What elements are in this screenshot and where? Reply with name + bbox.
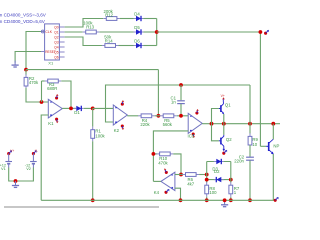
wire to op-amp K2 inverting input	[93, 107, 114, 109]
node D1 output	[91, 107, 95, 111]
wire Q2 base	[212, 124, 219, 141]
wire Q1 emitter to rail	[223, 114, 225, 124]
label R9 value 10	[252, 142, 257, 147]
label R6 value 4k7	[187, 181, 195, 186]
label R5 name	[164, 118, 170, 123]
svg-text:220k: 220k	[140, 122, 150, 127]
op-amp K4 V+ arrow	[164, 168, 168, 174]
transistor Q1	[219, 102, 224, 115]
node top net end	[259, 30, 263, 34]
svg-text:470k: 470k	[158, 160, 168, 165]
svg-text:Q1: Q1	[225, 102, 231, 107]
wire mid rail	[212, 123, 281, 125]
resistor R9	[248, 133, 252, 148]
label R10 value 470k	[158, 160, 168, 165]
node R1 bottom rail	[91, 198, 95, 202]
resistor R13	[83, 30, 100, 34]
ground at RESET	[12, 61, 19, 67]
svg-text:Q6: Q6	[54, 55, 59, 59]
resistor R1	[91, 127, 95, 142]
wire R13 to D5	[99, 31, 133, 33]
label D4	[134, 12, 140, 17]
svg-text:D6: D6	[134, 39, 140, 44]
wire Q1 base	[212, 109, 219, 124]
wire D1 to node	[84, 107, 93, 109]
label D1	[74, 110, 80, 115]
resistor R12	[103, 17, 120, 21]
wire K2 output to R4	[127, 115, 138, 117]
diode D3	[214, 159, 224, 164]
op-amp K1 V- arrow	[55, 118, 58, 124]
label R1 name	[95, 128, 101, 133]
node R6 K4 junction	[179, 173, 183, 177]
diode D5	[134, 29, 144, 34]
svg-text:K4: K4	[154, 190, 160, 195]
IC X1 output pin stubs Q0-Q6	[59, 27, 64, 57]
label R8 value 100	[209, 190, 217, 195]
node net stub marker	[264, 30, 269, 35]
svg-text:D4: D4	[134, 12, 140, 17]
wire Q2 to R14 branch	[65, 37, 102, 46]
label K4	[154, 190, 160, 195]
op-amp K2	[113, 105, 127, 125]
label R3 name	[49, 82, 55, 87]
wire R8 to rail	[206, 197, 208, 201]
svg-text:470k: 470k	[29, 80, 39, 85]
label R2 name	[29, 76, 35, 81]
supply V- at battery V2	[32, 149, 38, 155]
wire R12 to D4	[120, 18, 134, 20]
wire Q1 to R13 branch	[65, 31, 83, 33]
wire D2 row	[207, 179, 231, 181]
IC X1 pin RESET	[41, 50, 56, 54]
label R8 name	[209, 186, 215, 191]
label C2 value 220n	[234, 158, 244, 163]
svg-text:Q3: Q3	[54, 40, 59, 44]
wire D5 to join node	[144, 31, 157, 33]
svg-text:Q1: Q1	[54, 30, 59, 34]
label R9 name	[252, 137, 258, 142]
node rail R9 top	[248, 122, 252, 126]
node C1 bottom IC3 input	[179, 114, 183, 118]
wire CLK net vertical to R4-R5 node	[157, 70, 159, 116]
label R7 name	[234, 186, 240, 191]
label K1	[48, 121, 54, 126]
wire top net to right edge	[157, 31, 261, 33]
node rail Q1 emitter Q2 collector	[222, 122, 226, 126]
node ground bottom rail	[223, 198, 227, 202]
wire Q2 collector from rail	[223, 124, 225, 135]
capacitor C1	[177, 101, 185, 104]
wire IC3 noninverting input from feedback	[153, 131, 188, 182]
svg-text:X1: X1	[48, 60, 54, 65]
op-amp K1 V+ arrow	[55, 94, 58, 100]
wire K1 noninverting to bottom rail	[41, 115, 48, 200]
svg-text:1n: 1n	[171, 100, 176, 105]
label R2 value 470k	[29, 80, 39, 85]
node K1 output	[69, 107, 73, 111]
wire Q3 emitter to bottom rail	[272, 154, 274, 200]
wire K4 inverting input	[175, 174, 183, 176]
node feedback R10 left	[152, 152, 158, 156]
svg-text:4k7: 4k7	[187, 181, 195, 186]
wire RESET to ground	[15, 52, 41, 63]
resistor R5	[160, 114, 177, 118]
label Q1	[225, 102, 231, 107]
label R4 name	[142, 118, 148, 123]
node R4 R5 CLK junction	[157, 114, 161, 118]
node C1 top	[179, 83, 183, 87]
text net-class note line 1	[0, 12, 47, 17]
op-amp K4	[161, 172, 175, 190]
power V+ at Q1 collector	[221, 94, 225, 102]
svg-text:D1: D1	[74, 110, 80, 115]
label R5 value 560k	[163, 122, 173, 127]
label C2 name	[239, 154, 245, 159]
wire feedback up	[41, 81, 43, 102]
node Q2 emitter open end	[222, 150, 227, 155]
IC X1 counter CD4017 box	[45, 24, 60, 60]
resistor R2	[24, 74, 28, 89]
wire R2 top lead	[25, 70, 27, 75]
svg-text:100: 100	[209, 190, 217, 195]
svg-text:R13: R13	[86, 25, 94, 30]
svg-text:CLK: CLK	[45, 30, 52, 34]
IC X1 pin CLK	[41, 30, 53, 34]
node R6 diode network	[205, 173, 209, 177]
label Q3 NP	[273, 144, 279, 149]
node bottom rail end	[274, 197, 279, 202]
wire C2 to bottom rail	[249, 161, 251, 201]
wire R2 to op-amp K1 inverting input	[26, 88, 48, 102]
label R7 value 1	[234, 190, 237, 195]
svg-text:D2: D2	[214, 169, 220, 174]
resistor R3	[45, 79, 62, 83]
wire R14 to D6	[119, 45, 134, 47]
label V1 value +12	[0, 162, 6, 167]
svg-text:560k: 560k	[163, 122, 173, 127]
svg-text:Q2: Q2	[54, 35, 59, 39]
label R12 name	[105, 13, 113, 18]
wire R9 top from y85 net	[249, 85, 251, 124]
wire rail to R9	[249, 124, 251, 134]
wire R1 to bottom rail	[92, 141, 94, 200]
svg-text:10: 10	[252, 142, 257, 147]
label IC3	[188, 134, 195, 139]
label R14 name	[105, 39, 113, 44]
wire Q0 to R12 branch	[65, 19, 104, 28]
op-amp IC3 V- arrow	[192, 132, 195, 138]
wire right vertical down to Q3 base	[259, 32, 261, 146]
node rail Q3 collector	[271, 122, 275, 126]
svg-text:680R: 680R	[47, 86, 57, 91]
svg-text:V1: V1	[1, 166, 6, 171]
node R7 bottom rail	[229, 198, 233, 202]
wire K4 noninverting input to rail	[175, 188, 181, 200]
svg-text:m CD4000_VDD=5,6V: m CD4000_VDD=5,6V	[0, 19, 46, 24]
op-amp K2 V+ arrow	[121, 100, 124, 106]
svg-text:D5: D5	[134, 25, 140, 30]
resistor R14	[102, 44, 119, 48]
label K2	[114, 128, 120, 133]
wire R9 to C2	[249, 145, 251, 157]
node battery ground tap	[14, 179, 18, 183]
svg-text:IC3: IC3	[188, 134, 195, 139]
diode D6	[134, 43, 144, 48]
label V2 name	[26, 166, 31, 171]
wire bottom rail	[41, 199, 275, 201]
op-amp K1	[48, 99, 62, 118]
wire R3 right to output node	[61, 81, 71, 108]
label R6 name	[188, 177, 194, 182]
wire D3 row	[207, 161, 231, 163]
node CLK R2 junction	[24, 68, 28, 72]
svg-text:m CD4000_VSS=-3,6V: m CD4000_VSS=-3,6V	[0, 12, 47, 17]
resistor R10	[157, 152, 174, 156]
label R13 name	[86, 25, 94, 30]
wire node down to R1	[92, 108, 94, 126]
wire K2 noninverting feedback net	[106, 85, 251, 122]
node diode join	[155, 30, 159, 34]
label R1 value 100k	[95, 134, 105, 139]
node K4 noninverting rail	[179, 198, 183, 202]
wire R6 to diode network	[199, 174, 207, 176]
battery V1	[5, 154, 12, 168]
wire Q3 base	[260, 145, 266, 147]
op-amp K2 V- arrow	[121, 124, 124, 130]
transistor Q3	[266, 139, 273, 154]
svg-text:V+: V+	[221, 94, 225, 98]
svg-text:V2: V2	[26, 166, 31, 171]
svg-text:V-: V-	[35, 149, 38, 153]
label R4 value 220k	[140, 122, 150, 127]
node rail Q bases	[210, 122, 214, 126]
svg-text:NP: NP	[273, 144, 279, 149]
battery V2	[30, 154, 37, 168]
node D2 right	[229, 178, 233, 182]
svg-text:Q0: Q0	[54, 25, 59, 29]
wire C1 top lead	[180, 85, 182, 100]
svg-text:K2: K2	[114, 128, 120, 133]
text net-class note line 2	[0, 19, 46, 24]
node R8 bottom rail	[205, 198, 209, 202]
node C2 bottom rail	[248, 198, 252, 202]
wire CLK net horizontal	[26, 69, 158, 71]
op-amp IC3	[188, 113, 202, 133]
svg-text:R12: R12	[105, 13, 113, 18]
wire R4 to R5	[155, 115, 161, 117]
label Q2	[226, 137, 232, 142]
svg-text:100k: 100k	[95, 134, 105, 139]
wire diode network right vertical	[230, 162, 232, 183]
resistor R6	[183, 173, 200, 177]
wire R7 to rail	[230, 197, 232, 201]
label R14 value 50k	[104, 35, 112, 40]
node D2 left	[205, 178, 209, 182]
wire C1 bottom lead	[180, 104, 182, 116]
wire R3 left	[42, 80, 45, 82]
label D2	[214, 169, 220, 174]
svg-text:Q2: Q2	[226, 137, 232, 142]
svg-text:K1: K1	[48, 121, 54, 126]
IC X1 value label	[48, 60, 54, 65]
wire CLK from IC	[26, 32, 41, 70]
wire K1 output	[62, 107, 76, 109]
node K1 inverting input	[40, 100, 44, 104]
label R12 value 200k	[104, 9, 114, 14]
svg-text:RESET: RESET	[45, 50, 56, 54]
label R13 value 100k	[83, 21, 93, 26]
label V1 name	[1, 166, 6, 171]
transistor Q2	[219, 135, 225, 152]
wire IC3 output to rail	[202, 123, 212, 125]
diode D2	[214, 177, 224, 182]
ground at bottom rail	[221, 200, 228, 206]
op-amp IC3 V+ arrow	[195, 109, 198, 115]
resistor R8	[205, 182, 209, 197]
label D6	[134, 39, 140, 44]
wire Q3 collector to rail	[272, 124, 274, 140]
svg-text:Q4: Q4	[54, 45, 59, 49]
wire D6 to join node	[144, 45, 157, 47]
resistor R4	[138, 114, 155, 118]
gray divider line	[4, 206, 159, 208]
supply V+ at battery V1	[7, 149, 14, 155]
IC X1 pin labels Q0-Q6	[54, 25, 59, 59]
label C1 name	[171, 96, 177, 101]
label V2 value -12	[25, 162, 31, 167]
svg-text:R14: R14	[105, 39, 113, 44]
ground at batteries	[12, 181, 19, 187]
diode D1	[74, 106, 84, 111]
wire K4 output to feedback vertical	[153, 180, 161, 182]
diode D4	[134, 16, 144, 21]
label R10 name	[159, 156, 167, 161]
capacitor C2	[246, 157, 254, 160]
wire diode join vertical	[156, 19, 158, 46]
svg-text:220n: 220n	[234, 158, 244, 163]
resistor R7	[229, 182, 233, 197]
wire diode network left vertical	[206, 162, 208, 183]
op-amp K4 V- arrow	[164, 189, 169, 194]
wire R5 to IC3 inverting input	[177, 115, 188, 117]
svg-text:V+: V+	[10, 149, 14, 153]
label D3	[212, 166, 218, 171]
label C1 value 1n	[171, 100, 176, 105]
label R3 value 680R	[47, 86, 57, 91]
wire battery bottoms join	[9, 168, 34, 182]
wire D4 to join node	[144, 18, 157, 20]
label D5	[134, 25, 140, 30]
wire R10 right down to R6 node	[173, 154, 181, 175]
